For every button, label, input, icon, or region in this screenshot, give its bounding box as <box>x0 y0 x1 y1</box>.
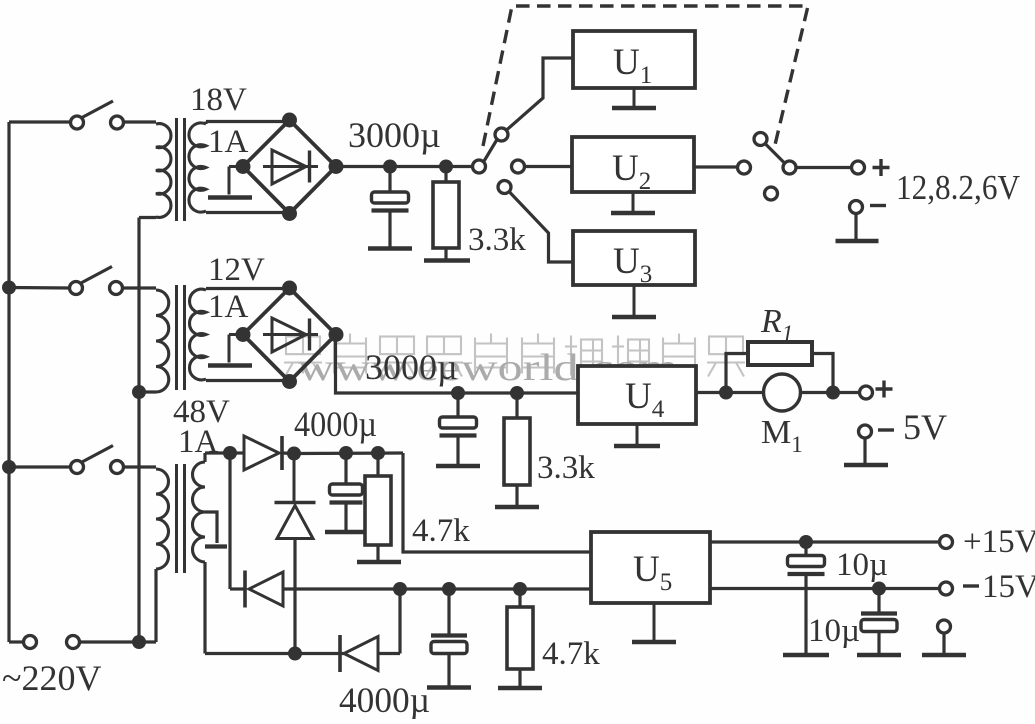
svg-text:4.7k: 4.7k <box>542 636 600 672</box>
svg-text:4.7k: 4.7k <box>412 513 470 549</box>
svg-text:3000µ: 3000µ <box>365 347 458 387</box>
svg-text:3.3k: 3.3k <box>537 450 595 486</box>
svg-text:1A: 1A <box>208 289 249 325</box>
svg-text:12V: 12V <box>208 252 265 288</box>
svg-text:1A: 1A <box>208 124 249 160</box>
svg-text:5V: 5V <box>903 407 947 447</box>
svg-text:3.3k: 3.3k <box>468 222 526 258</box>
svg-text:4000µ: 4000µ <box>294 404 377 444</box>
svg-text:12,8.2,6V: 12,8.2,6V <box>896 168 1020 207</box>
svg-text:15V: 15V <box>982 569 1035 605</box>
svg-text:18V: 18V <box>190 82 247 118</box>
svg-text:+15V: +15V <box>963 524 1035 560</box>
svg-text:4000µ: 4000µ <box>339 680 430 719</box>
svg-text:~220V: ~220V <box>2 658 101 698</box>
svg-text:10µ: 10µ <box>836 547 888 583</box>
svg-text:3000µ: 3000µ <box>348 115 441 155</box>
svg-text:1A: 1A <box>178 424 219 460</box>
svg-text:10µ: 10µ <box>808 613 860 649</box>
